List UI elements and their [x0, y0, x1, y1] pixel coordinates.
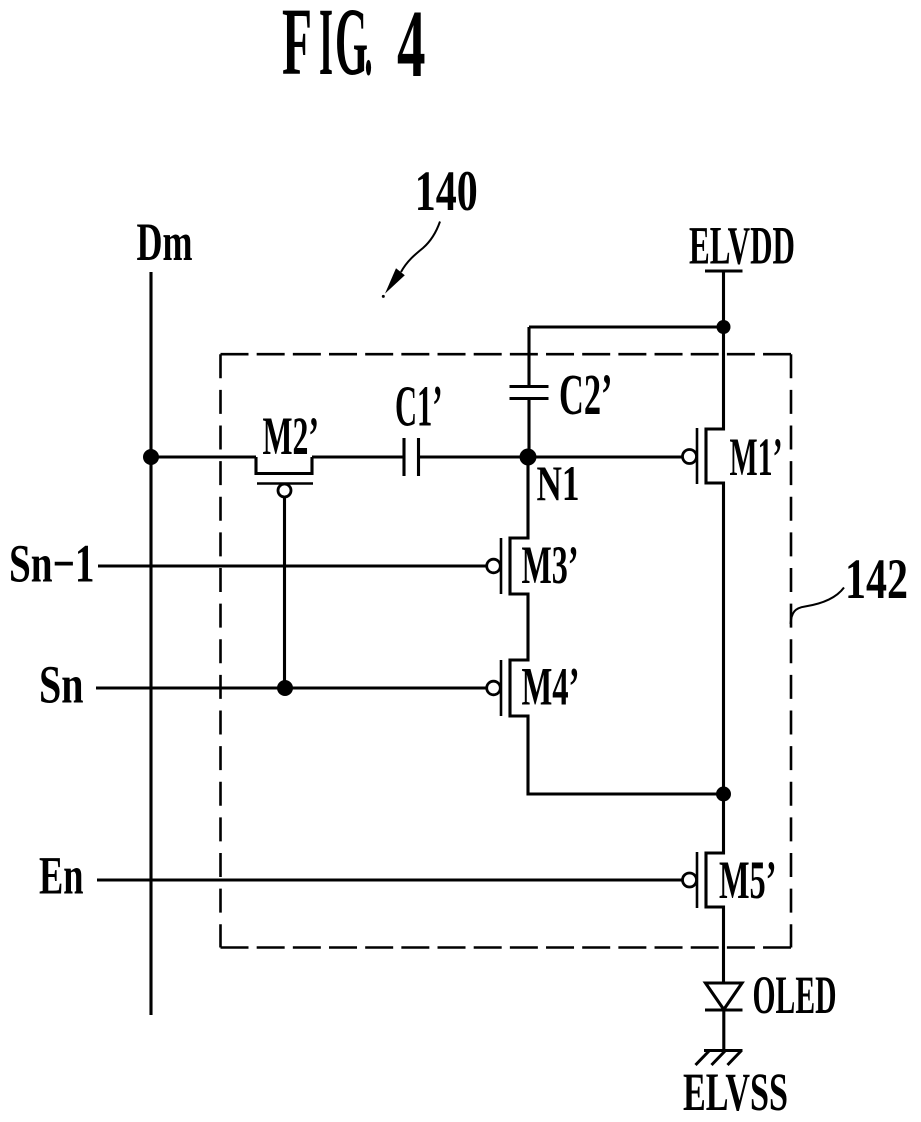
svg-text:ELVDD: ELVDD — [689, 216, 795, 276]
svg-text:I: I — [319, 0, 333, 95]
svg-text:C1’: C1’ — [395, 374, 443, 439]
svg-text:.: . — [365, 0, 373, 95]
svg-text:ELVSS: ELVSS — [683, 1062, 788, 1122]
svg-text:140: 140 — [415, 160, 478, 223]
svg-text:Dm: Dm — [137, 212, 193, 272]
svg-text:142: 142 — [845, 548, 908, 611]
svg-text:M2’: M2’ — [263, 406, 320, 466]
svg-text:C2’: C2’ — [559, 362, 613, 427]
svg-text:4: 4 — [397, 0, 426, 97]
svg-text:M1’: M1’ — [730, 427, 783, 487]
svg-text:N1: N1 — [537, 455, 580, 511]
svg-text:Sn−1: Sn−1 — [9, 534, 95, 594]
svg-text:M5’: M5’ — [719, 850, 777, 910]
svg-text:Sn: Sn — [39, 655, 84, 715]
svg-text:G: G — [335, 0, 368, 95]
svg-text:M3’: M3’ — [522, 535, 579, 595]
svg-text:En: En — [39, 846, 84, 906]
svg-text:F: F — [282, 0, 312, 95]
svg-text:M4’: M4’ — [522, 657, 580, 717]
svg-text:OLED: OLED — [753, 965, 837, 1025]
